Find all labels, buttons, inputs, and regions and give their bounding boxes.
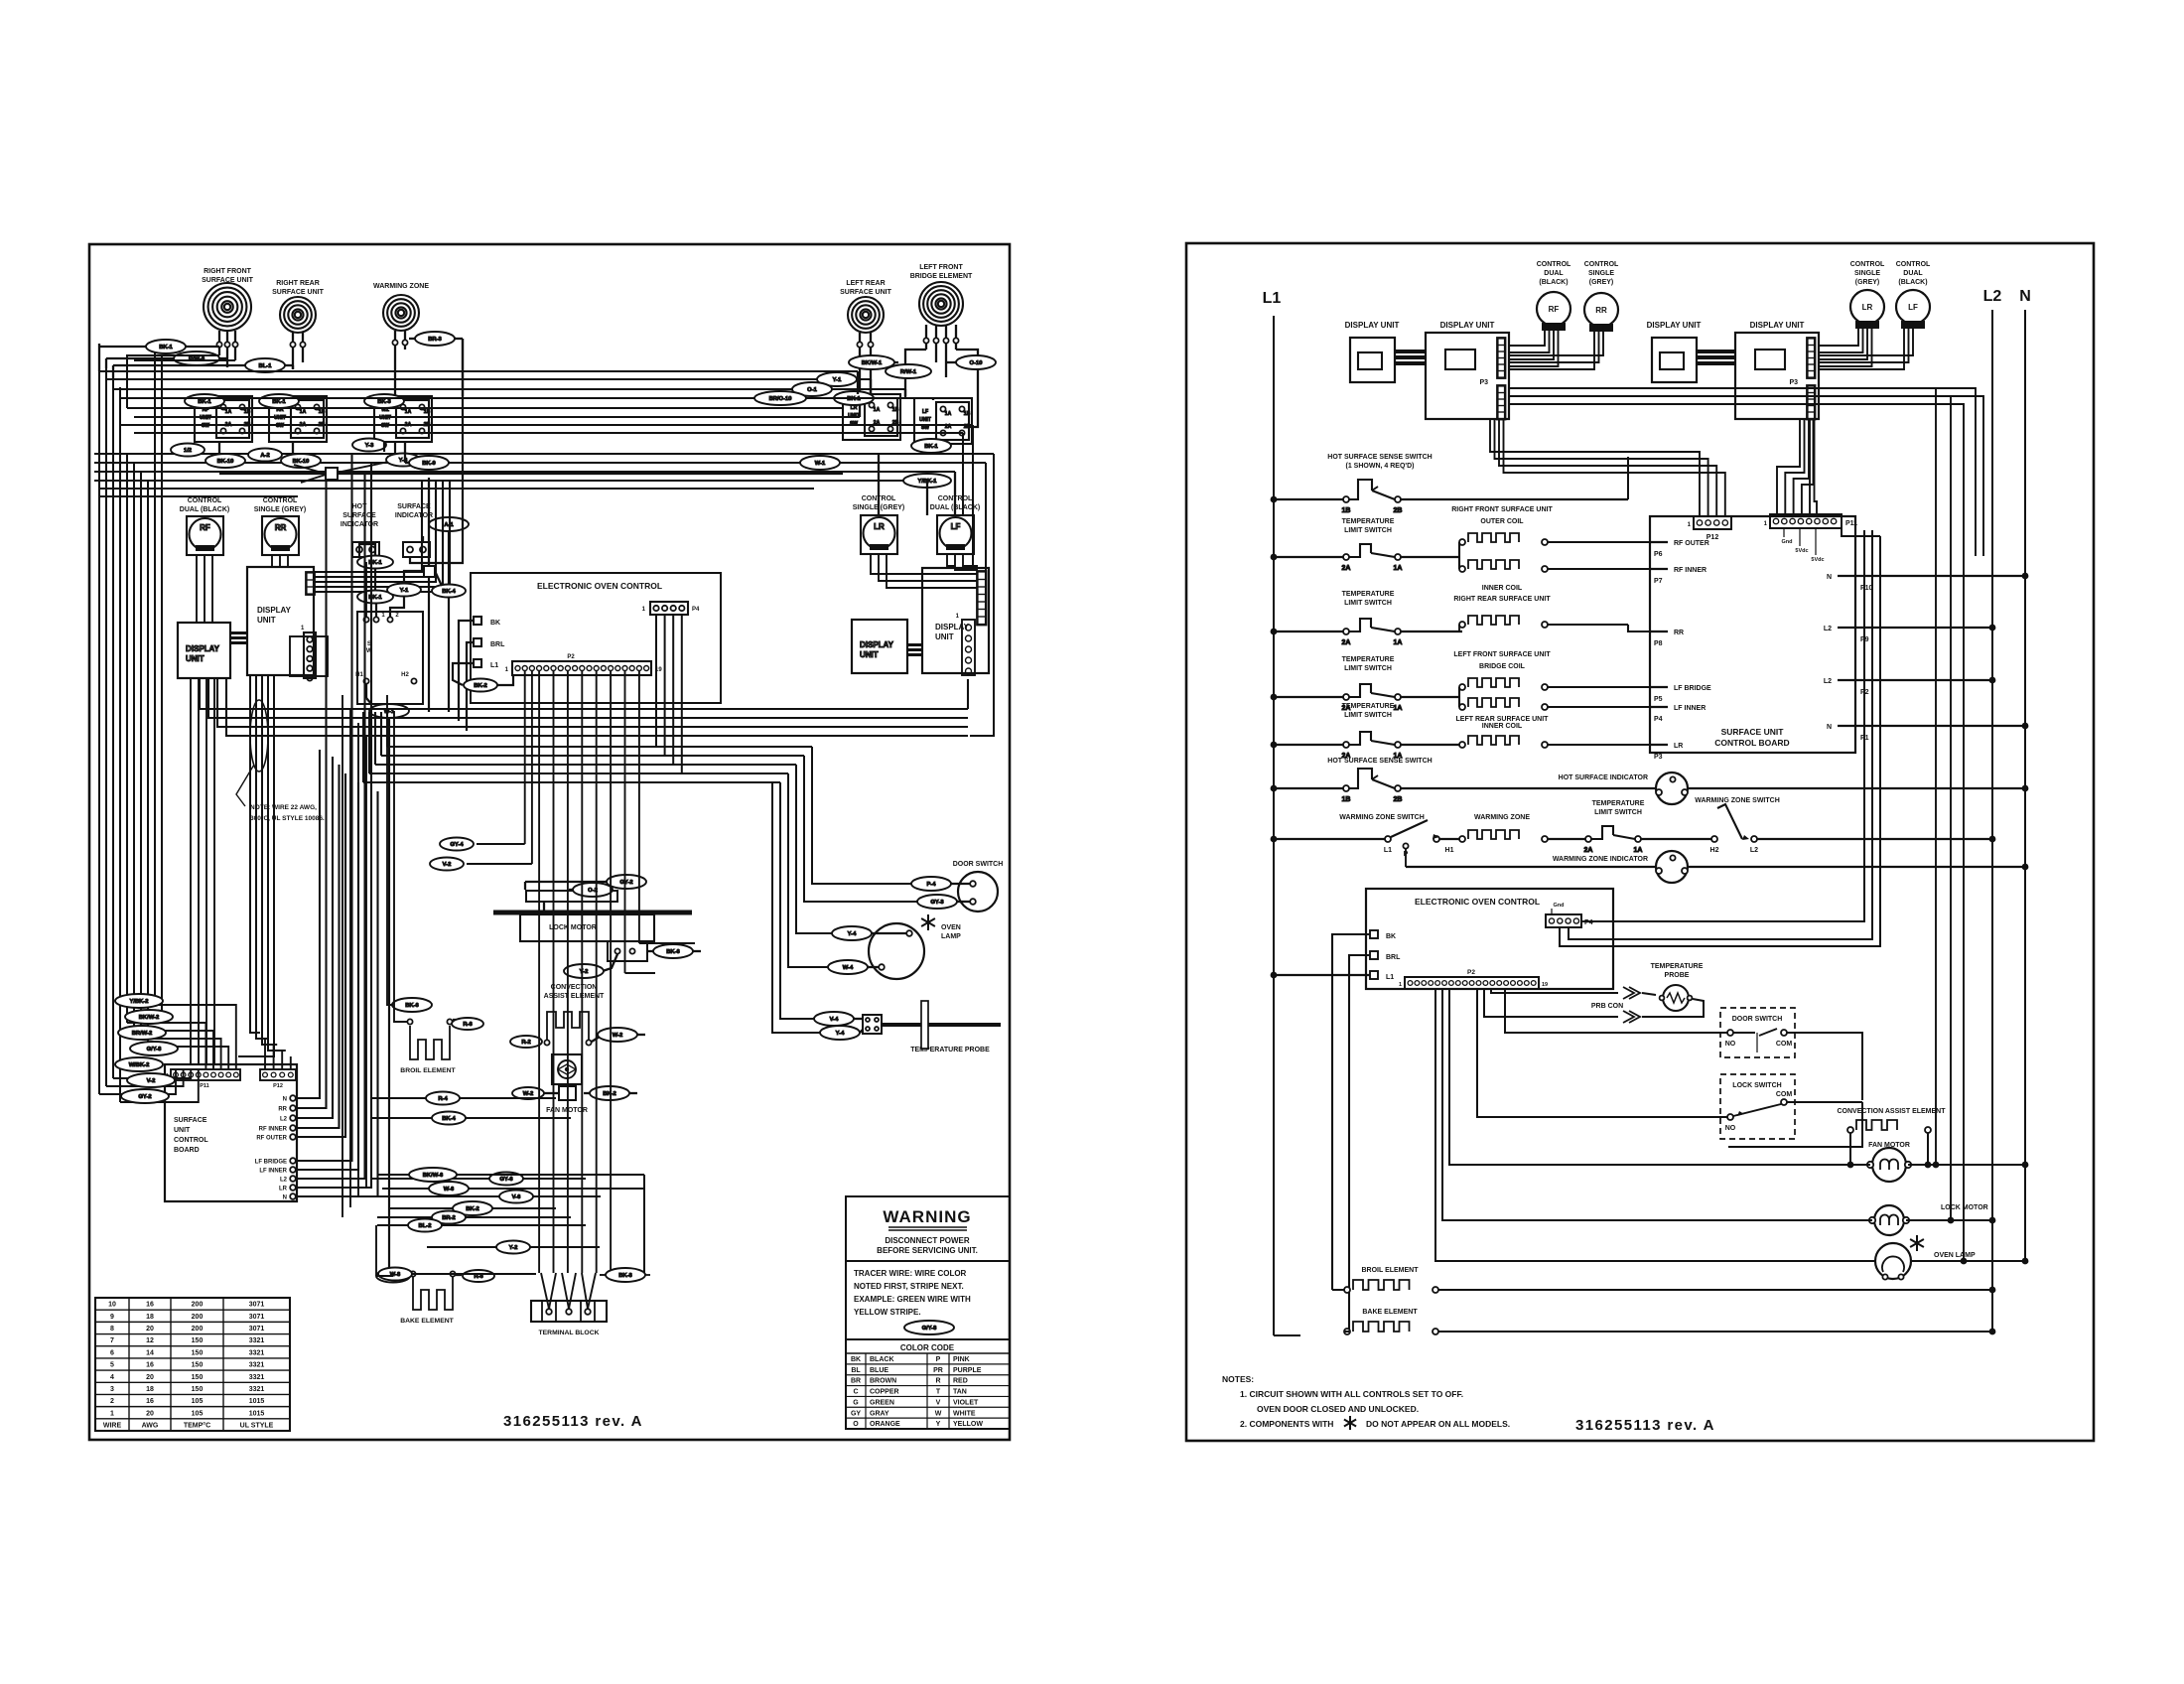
svg-text:SURFACE: SURFACE [397,503,431,510]
oval BR-2 bottom [432,1211,466,1224]
oval BK-1 above LR switch [834,391,874,405]
svg-text:LF INNER: LF INNER [259,1169,287,1175]
svg-text:CONVECTION ASSIST ELEMENT: CONVECTION ASSIST ELEMENT [1837,1108,1946,1115]
svg-text:L2: L2 [1824,626,1832,632]
svg-text:3321: 3321 [249,1386,265,1393]
svg-text:P4: P4 [692,607,700,613]
svg-text:200: 200 [192,1314,204,1321]
terminals of RF burner [218,331,220,342]
terminals of warming zone [394,331,396,340]
L1 rail to EOC L1 pin [1271,972,1278,979]
svg-text:Y-2: Y-2 [509,1245,518,1251]
svg-text:1B: 1B [892,407,899,413]
svg-text:BK-1: BK-1 [924,444,938,450]
oval BK-1 above RF switch [185,394,224,408]
EOC pin L1 [474,659,481,667]
svg-text:DISPLAY: DISPLAY [935,623,970,631]
svg-text:H2: H2 [401,672,409,678]
display unit large box A2 [1440,321,1495,330]
svg-text:DISPLAY: DISPLAY [860,640,894,649]
bake feed verticals [376,1275,393,1277]
svg-text:TEMPERATURE: TEMPERATURE [1342,703,1395,710]
oval BK-6 right of lock assembly [647,950,655,952]
svg-text:105: 105 [192,1398,204,1405]
svg-text:BAKE ELEMENT: BAKE ELEMENT [1362,1309,1418,1316]
svg-text:BL-2: BL-2 [419,1223,432,1229]
svg-text:BK-3: BK-3 [377,399,391,405]
label control single grey RR [254,497,307,513]
svg-text:2B: 2B [1394,507,1403,514]
svg-text:2A: 2A [1584,847,1593,854]
left mid verticals x340-370 [341,695,343,1217]
svg-text:BK-2: BK-2 [474,683,487,689]
svg-text:8: 8 [110,1326,114,1333]
svg-text:DISPLAY: DISPLAY [257,606,292,615]
oval BK-1 on SW pin [357,591,393,604]
wires RR knob to A2 connector [1508,325,1594,369]
svg-text:1: 1 [110,1410,114,1417]
oval R-6 right of broil [453,1019,459,1021]
svg-text:TERMINAL BLOCK: TERMINAL BLOCK [538,1330,599,1336]
svg-text:L2: L2 [280,1178,288,1184]
svg-text:1A: 1A [1394,705,1403,712]
oval BK-9 under WZ [409,456,449,470]
oval Y-2 bottom [496,1241,530,1254]
svg-text:3071: 3071 [249,1302,265,1309]
L1 rail bottom elbow [1274,1334,1300,1336]
svg-text:BK-1: BK-1 [159,345,173,351]
wires from A4 P3 to P11 region [1809,419,1811,514]
svg-text:RR: RR [278,1107,287,1113]
display unit small box A1 [1345,321,1400,330]
oval BK-1 above RR switch [259,394,299,408]
PH1 feed lines from left bundle [99,1069,176,1094]
svg-text:BL: BL [851,1367,861,1374]
svg-text:Y-3: Y-3 [365,443,374,449]
svg-text:BR-2: BR-2 [442,1215,456,1221]
svg-text:TEMPERATURE: TEMPERATURE [1342,518,1395,525]
right edge vertical returns [970,454,994,736]
svg-text:R: R [935,1378,940,1385]
svg-text:TAN: TAN [953,1389,967,1396]
svg-text:VIOLET: VIOLET [953,1399,979,1406]
svg-text:W-6: W-6 [444,1187,455,1193]
svg-text:DO NOT APPEAR ON ALL MODELS.: DO NOT APPEAR ON ALL MODELS. [1366,1419,1510,1429]
svg-text:(BLACK): (BLACK) [1539,279,1568,286]
svg-text:3071: 3071 [249,1326,265,1333]
svg-text:INDICATOR: INDICATOR [341,521,378,528]
label control dual black LF [930,495,980,511]
fan motor wiring [1449,989,1870,1165]
surface unit control board box [165,1064,297,1201]
svg-text:BRIDGE ELEMENT: BRIDGE ELEMENT [910,273,973,280]
connector strip on large display right top [977,571,987,626]
label warming zone [373,283,429,290]
svg-text:150: 150 [192,1337,204,1344]
svg-text:3: 3 [110,1386,114,1393]
svg-text:14: 14 [146,1349,154,1356]
svg-text:1B: 1B [319,409,326,415]
svg-text:P2: P2 [1467,969,1475,976]
svg-text:GY-2: GY-2 [619,880,632,886]
junction square on bundle [219,473,326,475]
warming zone indicator row [1553,856,1648,863]
connector strip A2 P3 [1479,379,1488,386]
svg-text:N: N [283,1195,287,1201]
svg-text:1A: 1A [874,407,881,413]
wire RF sw to bundle [127,355,219,408]
svg-text:BK/W-6: BK/W-6 [423,1173,444,1179]
svg-text:316255113 rev. A: 316255113 rev. A [503,1413,643,1430]
BK pin wire to broil element [1332,934,1370,1290]
wire bundle loop ellipse [250,700,268,772]
svg-text:Y: Y [936,1421,941,1428]
temperature probe symbol [910,1047,990,1053]
svg-text:LF: LF [951,522,961,531]
svg-text:V: V [936,1399,941,1406]
svg-text:2. COMPONENTS WITH: 2. COMPONENTS WITH [1240,1419,1333,1429]
left page part number 316255113 rev. A [503,1413,643,1430]
lock switch wiring [1477,989,1727,1117]
svg-text:CONTROL BOARD: CONTROL BOARD [1714,738,1789,748]
svg-text:BLUE: BLUE [870,1367,888,1374]
svg-text:UNIT: UNIT [257,616,276,625]
svg-text:BRIDGE COIL: BRIDGE COIL [1479,663,1526,670]
label surface indicator [395,503,433,519]
svg-text:BROIL ELEMENT: BROIL ELEMENT [400,1067,456,1074]
svg-text:DISPLAY UNIT: DISPLAY UNIT [1345,321,1400,330]
broil element right page [1361,1267,1419,1274]
svg-text:AWG: AWG [142,1423,159,1430]
svg-text:DUAL: DUAL [1903,270,1923,277]
svg-text:LF INNER: LF INNER [1674,705,1706,712]
svg-text:RF OUTER: RF OUTER [1674,540,1709,547]
oval Y-3 under WZ [352,439,386,452]
control knob circle RR [1584,261,1619,286]
svg-text:BK-1: BK-1 [272,399,286,405]
svg-text:20: 20 [146,1326,154,1333]
warning box frame [846,1196,1010,1429]
power rail N [2024,310,2026,1261]
svg-text:INNER COIL: INNER COIL [1482,723,1523,730]
oval W-1 below SW box [369,704,409,718]
oval BK-10 below RR sw [281,454,321,468]
svg-text:HOT SURFACE SENSE SWITCH: HOT SURFACE SENSE SWITCH [1327,758,1432,765]
svg-text:COM: COM [1776,1091,1793,1098]
svg-text:G/Y-8: G/Y-8 [147,1047,163,1052]
svg-text:BK: BK [851,1356,861,1363]
svg-text:SURFACE UNIT: SURFACE UNIT [272,289,324,296]
BRL pin wire to bake element [1349,955,1370,1332]
svg-text:V-2: V-2 [147,1078,156,1084]
board right pins P10 P9 P2 P1 [1838,575,1855,577]
svg-text:L1: L1 [490,662,498,669]
svg-text:1. CIRCUIT SHOWN WITH ALL CO: 1. CIRCUIT SHOWN WITH ALL CONTROLS SET T… [1240,1389,1463,1399]
EOC connector P2 19 pins [512,661,651,675]
burner RIGHT FRONT SURFACE UNIT [204,283,251,331]
EOC P2 verticals down [524,670,526,844]
oval BK-1 above SW box [357,556,393,569]
left page border frame [89,244,1010,1440]
display unit large right [922,568,989,673]
svg-text:P11: P11 [1845,520,1857,527]
svg-text:P5: P5 [1654,696,1663,703]
svg-text:YELLOW: YELLOW [953,1421,983,1428]
temperature limit switch RR [1342,591,1395,607]
oval BK-8 bottom right [606,1268,645,1282]
svg-text:5Vdc: 5Vdc [1795,548,1808,554]
svg-text:150: 150 [192,1374,204,1381]
svg-text:BK-10: BK-10 [293,459,310,465]
display unit large left [247,567,314,675]
surface unit control board box right page [1650,516,1855,753]
svg-text:WARMING ZONE: WARMING ZONE [373,283,429,290]
svg-text:1A: 1A [1634,847,1643,854]
EOC BK pin right page [1370,930,1378,938]
Gnd 5Vdc labels under P11 [1782,539,1825,563]
svg-text:SURFACE UNIT: SURFACE UNIT [1721,727,1785,737]
svg-text:L1: L1 [1386,974,1394,981]
right page border frame [1186,243,2094,1441]
color code grid [846,1352,1010,1354]
oval Y-4 to probe [820,1026,860,1040]
fan motor right page [1868,1142,1910,1149]
svg-text:1B: 1B [1342,796,1351,803]
svg-text:LOCK SWITCH: LOCK SWITCH [1732,1082,1781,1089]
oval R/W-1 on top run [886,364,931,378]
EOC pin BRL [474,638,481,646]
lock motor right page [1874,1205,1904,1235]
svg-text:1B: 1B [424,409,431,415]
warning box divider 2 [846,1338,1010,1340]
svg-text:105: 105 [192,1410,204,1417]
svg-text:1: 1 [1399,982,1402,988]
knob LR wires to display [871,554,978,574]
svg-text:P3: P3 [1789,379,1798,386]
svg-text:P12: P12 [273,1083,283,1089]
svg-text:WHITE: WHITE [953,1410,976,1417]
EOC BRL pin right page [1370,951,1378,959]
power rail L2 [1991,310,1993,1332]
svg-text:1A: 1A [945,411,952,417]
svg-text:LF: LF [1908,303,1918,312]
svg-text:CONTROL: CONTROL [188,497,222,504]
svg-text:P4: P4 [1654,716,1663,723]
oval R/W-9 top left [174,351,219,365]
svg-text:1B: 1B [964,411,971,417]
svg-text:W/BK-2: W/BK-2 [129,1062,150,1068]
svg-text:5Vdc: 5Vdc [1811,557,1824,563]
svg-text:LOCK MOTOR: LOCK MOTOR [549,924,597,931]
svg-text:12: 12 [146,1337,154,1344]
connector strip A4 right top [1807,338,1816,378]
svg-text:BOARD: BOARD [174,1147,200,1154]
svg-text:NO: NO [1725,1041,1736,1048]
svg-text:BK-9: BK-9 [422,461,436,467]
PRB CON arrows [1591,1003,1623,1010]
hot surface indicator lamp block [352,542,379,557]
control knob LF [937,515,974,554]
svg-text:RIGHT FRONT: RIGHT FRONT [204,268,252,275]
wires RF knob to A2 connector [1508,324,1545,346]
svg-text:9: 9 [110,1314,114,1321]
svg-text:3321: 3321 [249,1374,265,1381]
wire P10 to N rail [1855,575,2025,577]
svg-text:20: 20 [146,1410,154,1417]
svg-text:V-6: V-6 [512,1194,521,1200]
svg-text:L2: L2 [1983,288,2002,305]
temperature limit switch RF [1342,518,1395,534]
svg-text:CONTROL: CONTROL [1584,261,1619,268]
oval O-1 on top run [792,382,832,396]
control knob RF [187,516,223,555]
svg-text:BAKE ELEMENT: BAKE ELEMENT [400,1318,454,1325]
svg-text:TEMPERATURE: TEMPERATURE [1342,656,1395,663]
svg-text:N: N [2019,288,2031,305]
svg-text:CONTROL: CONTROL [1850,261,1885,268]
oval W-6 [429,1182,469,1195]
oval BK-4 left of EOC [432,585,466,598]
label left front bridge element [910,264,973,280]
wire gauge table [95,1298,290,1431]
hot surface indicator lamp [1559,774,1648,781]
P4 wires down [655,615,657,747]
switch block RR UNIT SW [269,396,327,442]
svg-text:CONVECTION: CONVECTION [551,984,598,991]
oval BL-1 top left [245,358,285,372]
svg-text:R-6: R-6 [474,1274,483,1280]
hot surface sense switch row 2 [1327,758,1432,765]
switch block RF UNIT SW [195,396,252,442]
svg-text:16: 16 [146,1302,154,1309]
svg-text:P2: P2 [567,654,575,660]
svg-text:BK-2: BK-2 [466,1206,479,1212]
svg-text:W-4: W-4 [843,965,854,971]
svg-text:W-2: W-2 [523,1091,534,1097]
switch block WZ UNIT SW [374,396,432,442]
control knob LR [861,515,897,554]
ribbon bar A1-A2 [1395,350,1426,353]
switch block LR UNIT SW [843,394,900,440]
wire P1 to N rail [1855,725,2025,727]
svg-text:150: 150 [192,1349,204,1356]
svg-text:R-6: R-6 [463,1022,473,1028]
ribbon bar A3-A4 [1697,350,1735,353]
svg-text:LIMIT SWITCH: LIMIT SWITCH [1344,665,1392,672]
oval BK-4 on L2 row [432,1112,466,1125]
svg-text:DUAL: DUAL [1544,270,1564,277]
svg-text:LIMIT SWITCH: LIMIT SWITCH [1344,527,1392,534]
svg-text:UNIT: UNIT [919,417,931,423]
right rear surface unit coil [1453,596,1551,603]
svg-text:P10: P10 [1860,585,1873,592]
svg-text:SURFACE UNIT: SURFACE UNIT [202,277,253,284]
oval Y/BK-1 mid run [903,474,951,488]
svg-text:L2: L2 [1824,678,1832,685]
svg-text:RR: RR [275,523,287,532]
broil feed verticals [387,695,392,1005]
svg-text:NOTED FIRST, STRIPE NEXT.: NOTED FIRST, STRIPE NEXT. [854,1282,964,1291]
note asterisk symbol [1350,1423,1356,1427]
svg-text:3321: 3321 [249,1349,265,1356]
svg-text:O-10: O-10 [970,360,983,366]
warming zone switch second [1695,797,1780,804]
convection assist element right page [1837,1108,1946,1115]
oval GY-6 on L2 row [489,1173,523,1186]
svg-text:2A: 2A [1342,639,1351,646]
burner LEFT REAR SURFACE UNIT [848,297,884,333]
rail label N [2019,288,2031,305]
svg-text:BK-4: BK-4 [442,1116,456,1122]
svg-text:P: P [936,1356,941,1363]
surface indicator lamp block [403,542,430,557]
svg-text:2A: 2A [1342,565,1351,572]
svg-text:1A: 1A [1394,639,1403,646]
svg-text:RIGHT REAR SURFACE UNIT: RIGHT REAR SURFACE UNIT [1453,596,1551,603]
svg-text:Y-1: Y-1 [833,377,842,383]
vertical stub LR [857,371,859,394]
svg-text:COPPER: COPPER [870,1389,899,1396]
svg-text:316255113 rev. A: 316255113 rev. A [1575,1417,1715,1434]
svg-text:NO: NO [1725,1125,1736,1132]
svg-text:TEMPERATURE: TEMPERATURE [1592,800,1645,807]
svg-text:DISCONNECT POWER: DISCONNECT POWER [885,1236,970,1245]
board pin row extensions right [370,1097,556,1099]
svg-text:(BLACK): (BLACK) [1898,279,1927,286]
svg-text:WIRE: WIRE [103,1423,122,1430]
second horizontal bundle [94,453,879,455]
control knob circle RF [1537,261,1571,286]
svg-text:INNER COIL: INNER COIL [1482,585,1523,592]
svg-text:LEFT FRONT: LEFT FRONT [919,264,963,271]
svg-text:WARMING ZONE INDICATOR: WARMING ZONE INDICATOR [1553,856,1648,863]
warming zone wires down to SW box [387,442,395,457]
burner LEFT FRONT BRIDGE ELEMENT [919,282,963,326]
oval BK/W-6 [409,1168,457,1182]
svg-text:200: 200 [192,1302,204,1309]
oval R-2 left of convection coil [510,1036,542,1048]
svg-text:V-4: V-4 [830,1017,839,1023]
svg-text:BR: BR [851,1378,861,1385]
svg-text:RF: RF [200,523,210,532]
svg-text:2: 2 [110,1398,114,1405]
oval BK-1 top left [146,340,186,353]
board connector P11 strip [171,1069,240,1080]
svg-text:ORANGE: ORANGE [870,1421,900,1428]
control knob circle LF [1896,261,1931,286]
oven lamp circle [869,923,924,979]
svg-text:N: N [1827,724,1832,731]
svg-text:(GREY): (GREY) [1589,279,1614,286]
svg-text:LEFT FRONT SURFACE UNIT: LEFT FRONT SURFACE UNIT [1453,651,1551,658]
connector strip A2 right top [1497,338,1506,378]
svg-text:LEFT REAR: LEFT REAR [846,280,885,287]
oval 1/2 left [171,444,205,457]
svg-text:18: 18 [146,1386,154,1393]
svg-text:7: 7 [110,1337,114,1344]
wires LR knob to A4 connector [1818,322,1858,346]
svg-text:BR/W-2: BR/W-2 [132,1031,153,1037]
svg-text:19: 19 [1542,982,1548,988]
svg-text:O-1: O-1 [807,387,817,393]
svg-text:PR: PR [933,1367,943,1374]
ribbon cable into display top [314,481,422,572]
svg-text:1/2: 1/2 [184,448,192,454]
svg-text:Gnd: Gnd [1554,903,1565,909]
svg-text:150: 150 [192,1362,204,1369]
svg-text:4: 4 [110,1374,114,1381]
oval A-1 right of surface indicator [429,517,469,531]
